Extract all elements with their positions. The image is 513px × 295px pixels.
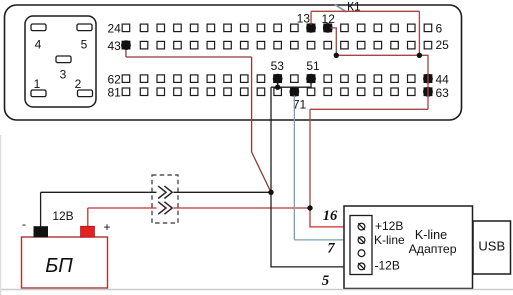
svg-text:16: 16 [323, 208, 338, 224]
svg-text:+12В: +12В [375, 219, 403, 233]
svg-text:25: 25 [436, 38, 450, 52]
pin 63 contact [423, 87, 433, 97]
pin 51 contact [306, 74, 316, 84]
svg-text:43: 43 [107, 39, 121, 53]
terminal -12V circle [358, 263, 365, 270]
junction node pin12 to bus [334, 53, 339, 58]
ECU connector block outline [5, 5, 462, 120]
wire: ground wire to -12V pin [271, 192, 358, 267]
ECU pin grid (4 rows of contacts) [122, 24, 432, 95]
wire: pin 53 drop to node [277, 82, 279, 87]
wire: pin 43 vertical drop [251, 57, 253, 152]
adapter terminal strip [350, 216, 372, 275]
pin 5 [77, 24, 92, 52]
svg-text:7: 7 [327, 241, 335, 257]
svg-text:12В: 12В [52, 209, 73, 223]
svg-text:13: 13 [297, 11, 311, 25]
connector chevrons on minus wire [158, 186, 172, 198]
pin 2 [75, 77, 93, 97]
page rule bottom [0, 289, 513, 291]
pin 3 [56, 56, 71, 82]
wire: bus node-to-node horizontal [336, 54, 419, 56]
terminal +12V circle [358, 223, 365, 230]
svg-text:-: - [22, 217, 26, 231]
wire: pin 71 K-line drop [293, 96, 295, 240]
power supply BP box [22, 237, 108, 288]
wire: battery minus to connector [41, 191, 157, 193]
wire: battery minus after connector [174, 191, 272, 193]
svg-text:БП: БП [45, 255, 73, 277]
svg-text:5: 5 [81, 38, 88, 52]
inner diagnostic connector outline [25, 16, 96, 107]
pin 71 contact (K-line) [289, 87, 299, 97]
svg-text:-12В: -12В [375, 258, 400, 272]
wire: K1 bus top horizontal [311, 10, 419, 12]
wire: battery minus riser [40, 192, 42, 226]
wire: +12V feed into adapter [310, 208, 358, 227]
pin 43 contact (ground) [121, 40, 131, 50]
junction node ground junction [268, 190, 273, 195]
svg-text:2: 2 [75, 77, 82, 91]
connector chevrons on plus wire [158, 202, 172, 214]
K-line adapter box [344, 206, 473, 289]
USB plug box [473, 221, 511, 274]
wire: pin 43 horizontal [126, 56, 252, 58]
page rule left [0, 135, 2, 295]
wire: bus lower horizontal inside block [310, 108, 428, 110]
wire: battery plus to connector [88, 207, 157, 209]
junction node below pin 53 [275, 85, 280, 90]
wire: pin 12 drop to node [331, 28, 337, 55]
svg-text:51: 51 [306, 59, 320, 73]
wire: battery plus after connector [174, 207, 311, 209]
pin 44 contact [423, 74, 433, 84]
svg-text:62: 62 [107, 72, 121, 86]
svg-text:53: 53 [271, 59, 285, 73]
wire: ground drop from pin 53 node [270, 87, 272, 192]
wire: pin 43 diagonal to ground node [252, 152, 271, 192]
pin 53 contact [273, 74, 283, 84]
wire: battery plus riser [87, 208, 89, 227]
svg-text:1: 1 [34, 77, 41, 91]
detachable connector dashed box [152, 175, 178, 223]
wire: pin 13 up to K1 bus [310, 11, 312, 24]
pin 13 contact [306, 23, 316, 33]
wire: bus drop to +12V junction [309, 109, 311, 208]
minus terminal [34, 226, 49, 237]
K1 leader line [335, 4, 347, 12]
junction node bus right corner [417, 53, 422, 58]
wire: K-line wire into adapter [294, 239, 358, 241]
wire: K1 bus right drop [418, 11, 420, 55]
svg-text:+: + [104, 220, 111, 234]
pin 12 contact [323, 23, 333, 33]
pin 4 [31, 24, 46, 52]
terminal spare circle [358, 250, 365, 257]
svg-text:24: 24 [107, 21, 121, 35]
svg-text:3: 3 [60, 68, 67, 82]
svg-text:5: 5 [322, 273, 329, 289]
plus terminal [81, 226, 95, 237]
svg-text:K-line: K-line [415, 228, 447, 242]
svg-text:12: 12 [322, 12, 336, 26]
svg-text:6: 6 [436, 22, 443, 36]
terminal K-line circle [358, 237, 365, 244]
wire: pin 43 drop [125, 50, 127, 57]
pin 1 [31, 77, 46, 97]
svg-text:4: 4 [35, 38, 42, 52]
svg-text:63: 63 [436, 86, 450, 100]
junction node +12V junction [307, 205, 312, 210]
svg-text:K-line: K-line [374, 233, 405, 247]
svg-text:Адаптер: Адаптер [409, 242, 457, 256]
wire: pin 53 to pin 51 jumper [271, 82, 311, 87]
svg-text:81: 81 [107, 85, 121, 99]
wire: bus jog to pins 44/63 column [419, 55, 428, 109]
svg-text:44: 44 [436, 72, 450, 86]
svg-text:USB: USB [478, 239, 505, 254]
